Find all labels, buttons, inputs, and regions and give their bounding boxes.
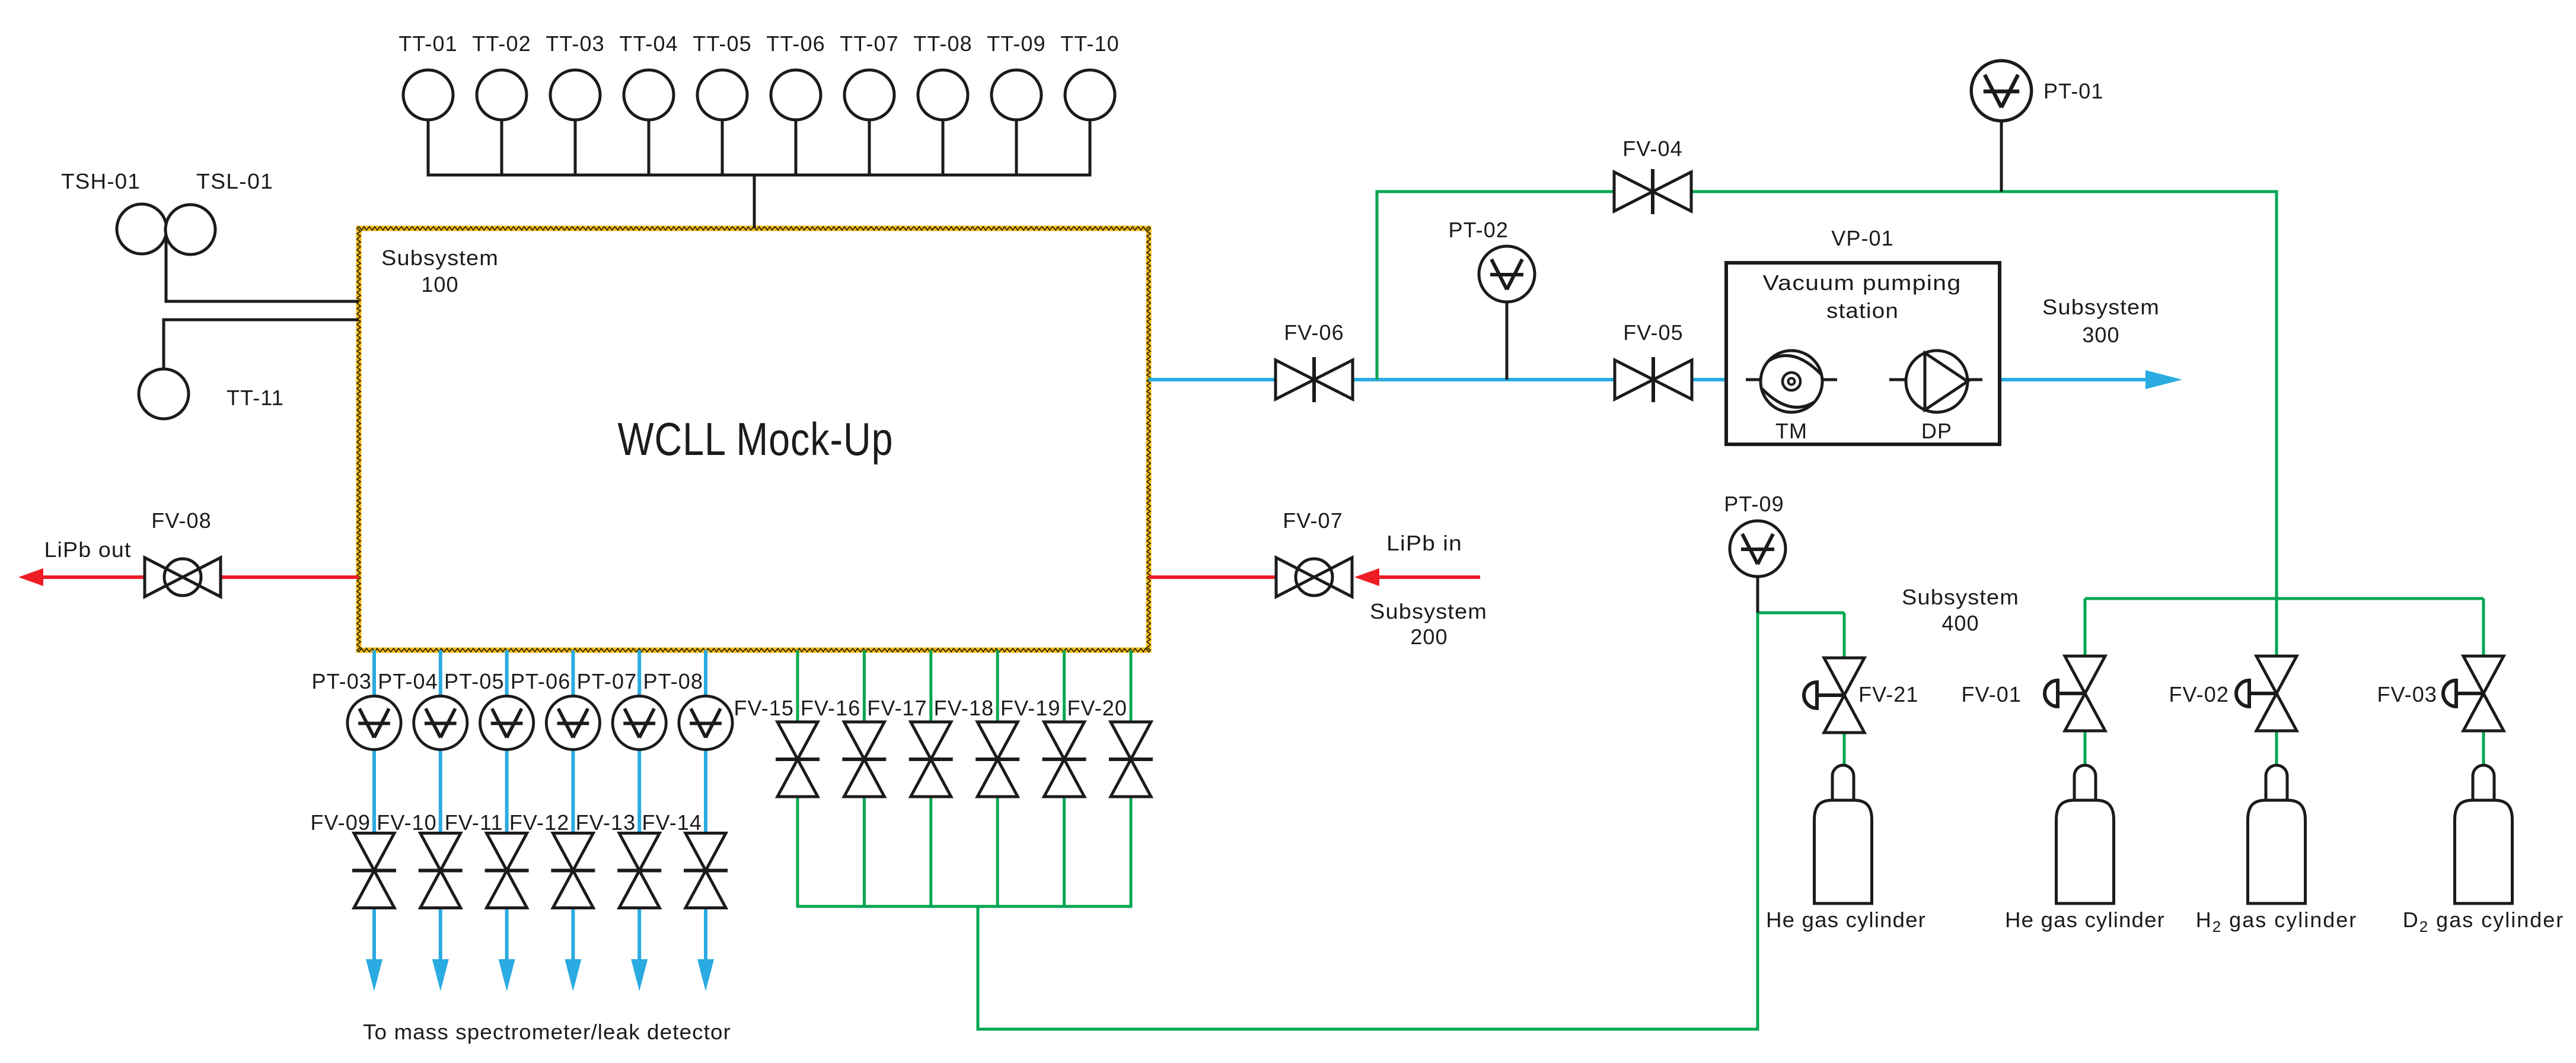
svg-text:TT-07: TT-07 bbox=[840, 31, 899, 56]
wire green subsystem 400 header bbox=[2085, 597, 2483, 600]
node PT-08 branch bbox=[704, 650, 707, 696]
pump DP bbox=[1906, 351, 1968, 412]
wire TSH/TSL to box bbox=[165, 231, 168, 303]
instrument TT-11 bbox=[139, 369, 189, 419]
instrument TT-05 bbox=[697, 70, 747, 120]
node PT-05 branch bbox=[505, 650, 509, 696]
svg-text:FV-04: FV-04 bbox=[1622, 136, 1683, 161]
gas cylinder at x=4188 bbox=[2455, 765, 2513, 903]
arrow to leak detector 3 bbox=[499, 959, 515, 991]
node PT-03 branch bbox=[372, 650, 376, 696]
svg-text:TT-02: TT-02 bbox=[472, 31, 531, 56]
node FV-19 branch bbox=[1063, 650, 1066, 722]
wire blue vacuum line bbox=[1149, 378, 1276, 381]
valve FV-09 bbox=[352, 833, 396, 908]
svg-text:FV-07: FV-07 bbox=[1283, 508, 1343, 533]
svg-text:FV-08: FV-08 bbox=[151, 508, 212, 533]
svg-text:PT-06: PT-06 bbox=[511, 669, 571, 693]
instrument TT-01 bbox=[403, 70, 453, 120]
WCLL Mock-Up subsystem 100 box bbox=[359, 228, 1149, 650]
arrow LiPb out bbox=[18, 568, 43, 586]
svg-text:PT-09: PT-09 bbox=[1724, 492, 1784, 516]
svg-text:TM: TM bbox=[1775, 419, 1807, 443]
svg-text:PT-03: PT-03 bbox=[311, 669, 372, 693]
node FV-15 branch bbox=[796, 650, 799, 722]
svg-text:FV-09: FV-09 bbox=[310, 810, 371, 835]
svg-text:PT-04: PT-04 bbox=[378, 669, 438, 693]
svg-text:FV-13: FV-13 bbox=[576, 810, 636, 835]
instrument PT-08 bbox=[679, 696, 732, 749]
svg-text:FV-18: FV-18 bbox=[934, 696, 994, 720]
valve FV-10 bbox=[419, 833, 463, 908]
svg-text:300: 300 bbox=[2082, 323, 2119, 347]
valve FV-08 globe bbox=[145, 558, 221, 597]
valve FV-13 bbox=[617, 833, 661, 908]
instrument TT-02 bbox=[477, 70, 527, 120]
instrument PT-07 bbox=[613, 696, 666, 749]
svg-text:FV-03: FV-03 bbox=[2377, 682, 2437, 706]
valve FV-03 bbox=[2443, 680, 2483, 706]
node FV-18 branch bbox=[996, 650, 999, 722]
svg-text:400: 400 bbox=[1941, 611, 1979, 635]
svg-text:FV-14: FV-14 bbox=[642, 810, 702, 835]
pump stubs bbox=[1746, 378, 1762, 381]
valve FV-21 bbox=[1804, 682, 1844, 708]
gas cylinder at x=3516 bbox=[2057, 765, 2114, 903]
svg-text:FV-01: FV-01 bbox=[1961, 682, 2022, 706]
instrument TSH-01 bbox=[117, 204, 167, 254]
node PT-04 branch bbox=[439, 650, 442, 696]
valve FV-11 bbox=[485, 833, 529, 908]
valve FV-07 globe bbox=[1276, 558, 1352, 597]
arrow to leak detector 5 bbox=[631, 959, 648, 991]
svg-text:FV-19: FV-19 bbox=[1000, 696, 1061, 720]
svg-text:FV-16: FV-16 bbox=[801, 696, 861, 720]
svg-text:DP: DP bbox=[1921, 419, 1952, 443]
svg-text:TSL-01: TSL-01 bbox=[196, 169, 273, 193]
valve FV-05 bbox=[1615, 357, 1692, 402]
valve FV-12 bbox=[551, 833, 595, 908]
svg-text:TT-04: TT-04 bbox=[619, 31, 678, 56]
wire green return loop bbox=[1756, 612, 1759, 1031]
instrument TT-09 bbox=[991, 70, 1041, 120]
svg-text:WCLL Mock-Up: WCLL Mock-Up bbox=[618, 413, 894, 465]
svg-text:TT-08: TT-08 bbox=[913, 31, 973, 56]
svg-text:PT-05: PT-05 bbox=[444, 669, 505, 693]
instrument TSL-01 bbox=[165, 205, 215, 254]
valve FV-17 bbox=[909, 722, 953, 797]
instrument PT-04 bbox=[414, 696, 467, 749]
gas cylinder at x=3839 bbox=[2248, 765, 2306, 903]
svg-text:VP-01: VP-01 bbox=[1831, 226, 1894, 250]
node PT-07 branch bbox=[637, 650, 641, 696]
valve FV-04 bbox=[1614, 169, 1691, 214]
svg-text:TT-11: TT-11 bbox=[227, 386, 284, 410]
svg-text:Subsystem: Subsystem bbox=[381, 246, 499, 270]
svg-text:FV-02: FV-02 bbox=[2169, 682, 2229, 706]
instrument PT-02 bbox=[1506, 302, 1509, 380]
svg-text:To mass spectrometer/leak dete: To mass spectrometer/leak detector bbox=[363, 1020, 731, 1044]
svg-text:station: station bbox=[1826, 298, 1899, 323]
svg-text:Vacuum pumping: Vacuum pumping bbox=[1763, 270, 1962, 295]
svg-text:He gas cylinder: He gas cylinder bbox=[1766, 908, 1926, 932]
svg-text:200: 200 bbox=[1410, 625, 1448, 649]
instrument TT-06 bbox=[771, 70, 821, 120]
svg-text:PT-08: PT-08 bbox=[643, 669, 703, 693]
svg-text:FV-11: FV-11 bbox=[445, 810, 503, 835]
VP-01 box bbox=[1726, 263, 2000, 444]
node FV-17 branch bbox=[929, 650, 932, 722]
node PT-06 branch bbox=[571, 650, 575, 696]
valve FV-02 bbox=[2236, 680, 2277, 706]
instrument PT-09 bbox=[1756, 577, 1759, 613]
svg-text:TT-05: TT-05 bbox=[693, 31, 752, 56]
svg-text:TT-01: TT-01 bbox=[398, 31, 458, 56]
valve FV-06 bbox=[1276, 357, 1353, 402]
instrument PT-05 bbox=[480, 696, 533, 749]
wire bus drop bbox=[753, 175, 756, 228]
wire red LiPb out bbox=[221, 575, 359, 579]
svg-text:FV-05: FV-05 bbox=[1623, 320, 1684, 345]
pump TM bbox=[1761, 351, 1822, 412]
valve FV-19 bbox=[1042, 722, 1086, 797]
svg-text:FV-12: FV-12 bbox=[509, 810, 570, 835]
arrow to subsystem 300 bbox=[2145, 370, 2182, 389]
svg-text:FV-10: FV-10 bbox=[377, 810, 437, 835]
instrument TT-03 bbox=[550, 70, 600, 120]
svg-text:PT-07: PT-07 bbox=[577, 669, 637, 693]
svg-text:Subsystem: Subsystem bbox=[1370, 599, 1487, 623]
svg-text:Subsystem: Subsystem bbox=[2042, 295, 2160, 319]
valve FV-20 bbox=[1109, 722, 1153, 797]
svg-text:FV-06: FV-06 bbox=[1284, 320, 1344, 345]
arrow LiPb in bbox=[1354, 568, 1379, 586]
wire green FV-04 bypass bbox=[1376, 190, 1379, 380]
arrow to leak detector 2 bbox=[432, 959, 449, 991]
instrument TT-08 bbox=[918, 70, 968, 120]
gas cylinder at x=3108 bbox=[1815, 765, 1872, 903]
instrument PT-06 bbox=[546, 696, 600, 749]
instrument TT-10 bbox=[1065, 70, 1115, 120]
wire green manifold bbox=[798, 905, 1131, 908]
svg-text:100: 100 bbox=[421, 272, 458, 297]
svg-text:FV-20: FV-20 bbox=[1067, 696, 1127, 720]
valve FV-14 bbox=[684, 833, 728, 908]
svg-text:TT-09: TT-09 bbox=[987, 31, 1046, 56]
node FV-20 branch bbox=[1130, 650, 1133, 722]
valve FV-18 bbox=[975, 722, 1019, 797]
wire green cylinder stubs bbox=[2084, 731, 2087, 766]
svg-text:PT-01: PT-01 bbox=[2043, 79, 2104, 103]
instrument TT-04 bbox=[624, 70, 674, 120]
svg-text:TT-10: TT-10 bbox=[1060, 31, 1120, 56]
instrument PT-03 bbox=[347, 696, 401, 749]
arrow to leak detector 4 bbox=[565, 959, 581, 991]
svg-text:FV-15: FV-15 bbox=[734, 696, 794, 720]
instrument PT-01 bbox=[2000, 121, 2003, 192]
valve FV-01 bbox=[2045, 680, 2085, 706]
wire green PT-09 branch bbox=[1758, 612, 1844, 615]
TT-01..TT-10 stems and bus bbox=[427, 120, 430, 175]
svg-text:TT-06: TT-06 bbox=[766, 31, 825, 56]
svg-text:TT-03: TT-03 bbox=[546, 31, 605, 56]
svg-text:Subsystem: Subsystem bbox=[1902, 585, 2019, 609]
svg-text:PT-02: PT-02 bbox=[1448, 218, 1509, 242]
svg-text:FV-17: FV-17 bbox=[867, 696, 927, 720]
node FV-16 branch bbox=[863, 650, 866, 722]
instrument TT-07 bbox=[844, 70, 894, 120]
svg-text:FV-21: FV-21 bbox=[1858, 682, 1919, 706]
valve FV-15 bbox=[776, 722, 820, 797]
valve FV-16 bbox=[842, 722, 886, 797]
wire green main vertical bbox=[2275, 192, 2278, 656]
svg-text:LiPb out: LiPb out bbox=[44, 537, 132, 562]
wire red LiPb in bbox=[1371, 575, 1480, 579]
svg-text:TSH-01: TSH-01 bbox=[61, 169, 141, 193]
arrow to leak detector 1 bbox=[366, 959, 382, 991]
svg-text:He gas cylinder: He gas cylinder bbox=[2005, 908, 2165, 932]
svg-text:LiPb in: LiPb in bbox=[1386, 531, 1462, 555]
arrow to leak detector 6 bbox=[697, 959, 714, 991]
